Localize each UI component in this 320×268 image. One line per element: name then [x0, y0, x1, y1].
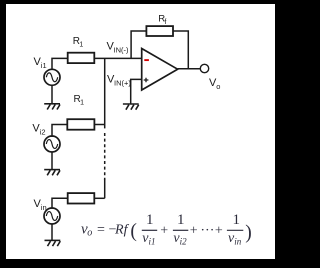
- svg-text:1: 1: [177, 212, 185, 228]
- svg-text:IN(+): IN(+): [114, 79, 131, 88]
- svg-text:i2: i2: [180, 236, 188, 246]
- svg-text:o: o: [216, 82, 220, 91]
- svg-text:i1: i1: [149, 236, 156, 246]
- svg-text:1: 1: [146, 212, 154, 228]
- svg-text:(: (: [130, 221, 137, 242]
- svg-text:R: R: [114, 223, 124, 238]
- svg-text:+: +: [190, 224, 198, 239]
- svg-text:): ): [245, 223, 252, 244]
- svg-text:o: o: [87, 228, 92, 239]
- svg-text:1: 1: [80, 100, 84, 107]
- svg-text:in: in: [234, 236, 242, 246]
- svg-text:IN(-): IN(-): [114, 46, 129, 55]
- svg-text:f: f: [164, 19, 166, 26]
- svg-text:1: 1: [233, 212, 241, 228]
- svg-text:in: in: [41, 203, 47, 212]
- svg-text:+: +: [160, 224, 168, 239]
- svg-text:1: 1: [79, 42, 83, 49]
- svg-text:=: =: [97, 223, 105, 238]
- svg-text:i2: i2: [40, 128, 46, 137]
- svg-text:i1: i1: [41, 61, 47, 70]
- svg-text:···: ···: [200, 224, 214, 239]
- svg-text:+: +: [215, 224, 223, 239]
